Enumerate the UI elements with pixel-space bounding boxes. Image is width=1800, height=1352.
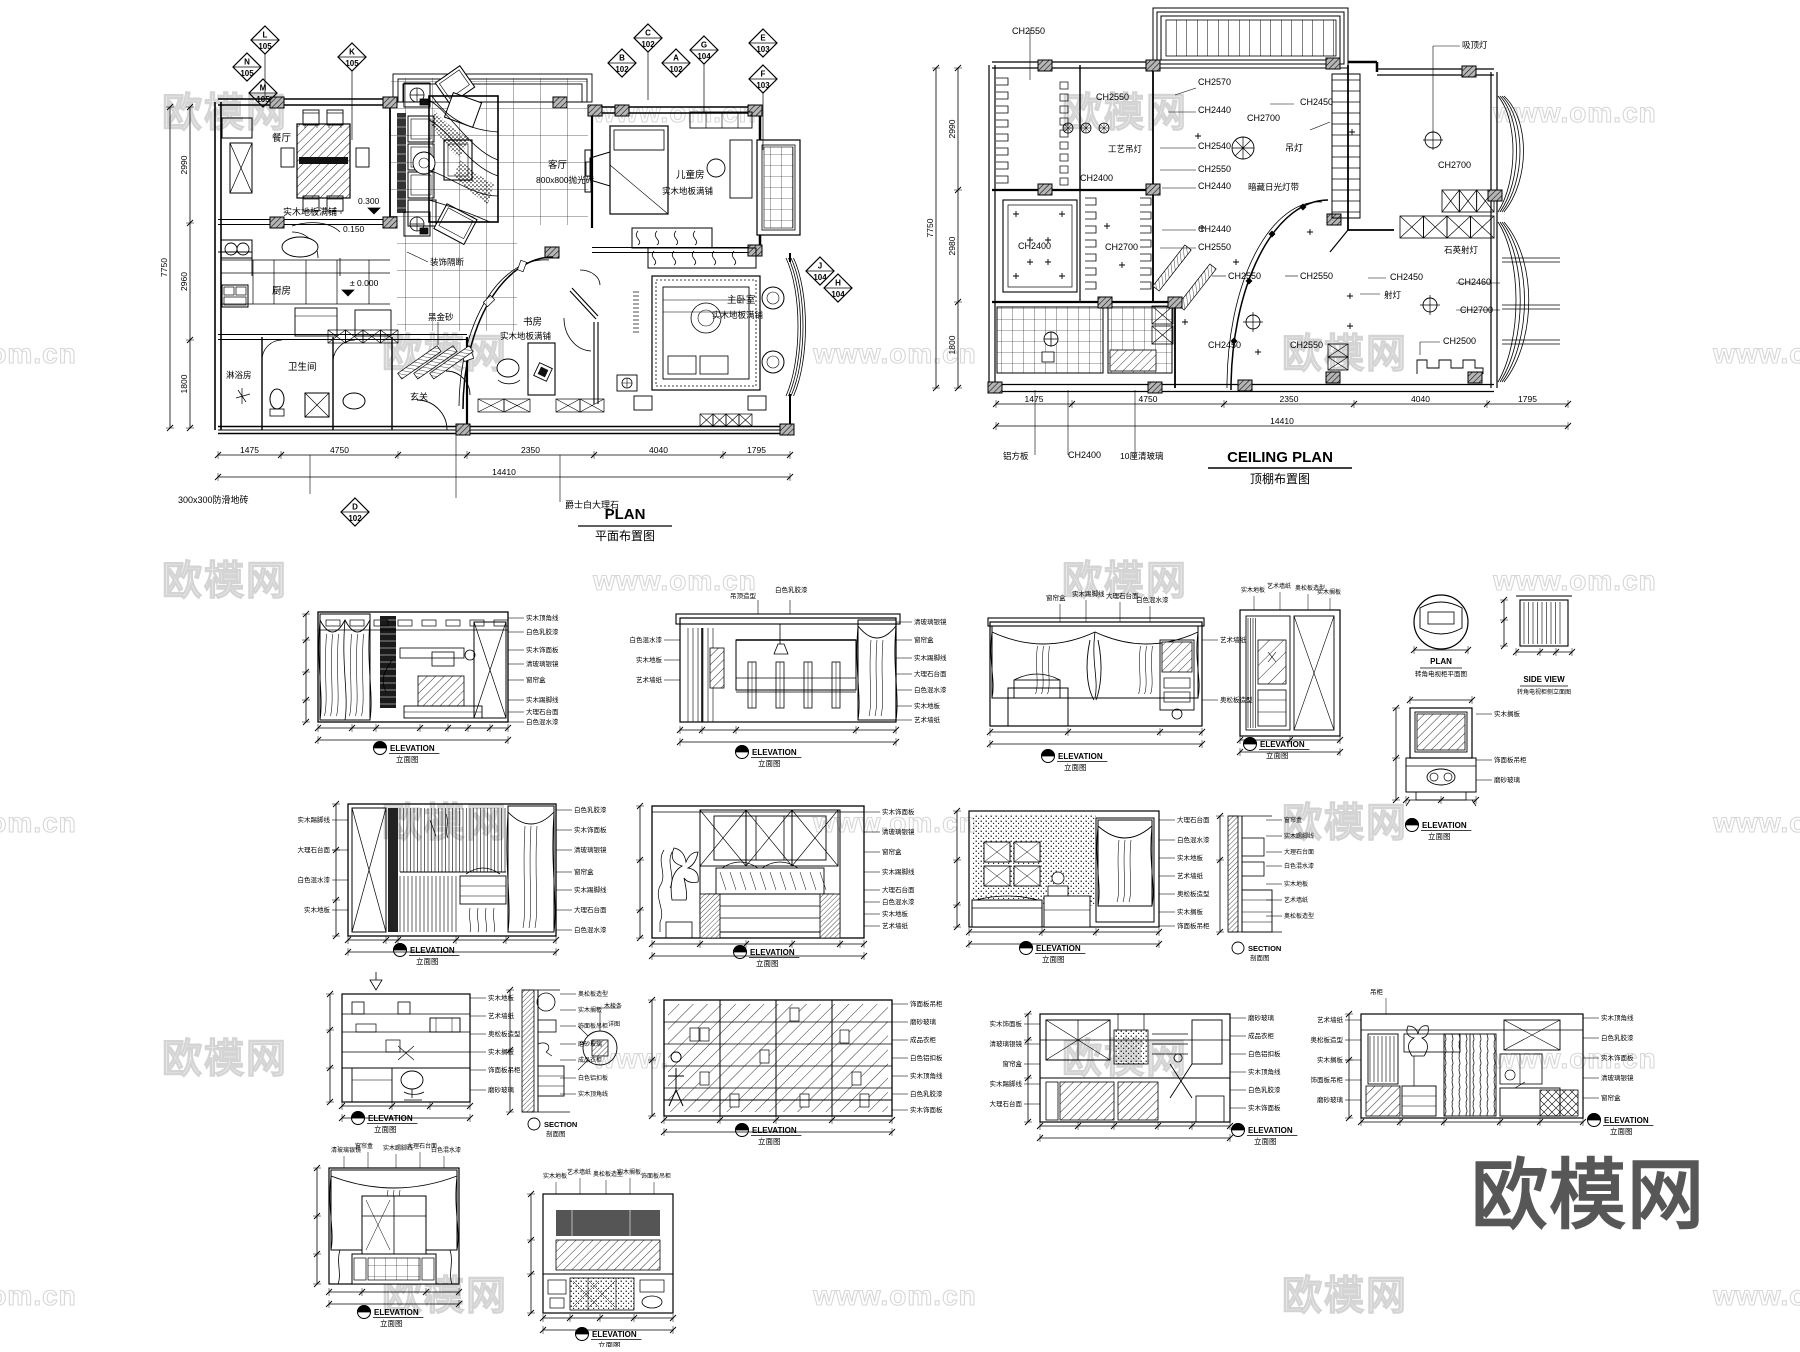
svg-text:ELEVATION: ELEVATION bbox=[1058, 752, 1103, 761]
svg-text:1795: 1795 bbox=[1518, 394, 1537, 404]
svg-text:饰面板吊柜: 饰面板吊柜 bbox=[1494, 755, 1527, 764]
svg-text:大理石台面: 大理石台面 bbox=[882, 885, 915, 894]
svg-text:2990: 2990 bbox=[947, 119, 957, 138]
svg-text:CH2460: CH2460 bbox=[1458, 277, 1491, 287]
svg-text:清玻璃银镜: 清玻璃银镜 bbox=[574, 845, 607, 854]
svg-text:艺术墙纸: 艺术墙纸 bbox=[1317, 1015, 1344, 1024]
svg-text:大理石台面: 大理石台面 bbox=[1106, 591, 1139, 600]
svg-text:CH2700: CH2700 bbox=[1438, 160, 1471, 170]
svg-text:SECTION: SECTION bbox=[1248, 944, 1281, 953]
svg-text:白色混水漆: 白色混水漆 bbox=[1136, 595, 1169, 604]
svg-text:实木顶角线: 实木顶角线 bbox=[1248, 1067, 1281, 1076]
svg-text:14410: 14410 bbox=[1270, 416, 1294, 426]
svg-text:艺术墙纸: 艺术墙纸 bbox=[1177, 871, 1204, 880]
svg-text:D: D bbox=[352, 503, 358, 512]
svg-text:CH2440: CH2440 bbox=[1198, 224, 1231, 234]
svg-text:ELEVATION: ELEVATION bbox=[368, 1114, 413, 1123]
svg-text:白色混水漆: 白色混水漆 bbox=[1177, 835, 1210, 844]
svg-text:艺术墙纸: 艺术墙纸 bbox=[1220, 635, 1247, 644]
svg-text:4040: 4040 bbox=[1411, 394, 1430, 404]
svg-text:ELEVATION: ELEVATION bbox=[374, 1308, 419, 1317]
svg-text:K: K bbox=[349, 48, 355, 57]
svg-text:CH2550: CH2550 bbox=[1300, 271, 1333, 281]
svg-text:www.om.cn: www.om.cn bbox=[0, 338, 77, 369]
svg-text:饰面板吊柜: 饰面板吊柜 bbox=[1311, 1075, 1344, 1084]
svg-text:窗帘盒: 窗帘盒 bbox=[526, 675, 546, 684]
svg-text:餐厅: 餐厅 bbox=[272, 132, 292, 144]
svg-text:立面图: 立面图 bbox=[758, 1136, 781, 1146]
svg-text:磨砂玻璃: 磨砂玻璃 bbox=[578, 1040, 602, 1048]
svg-text:CH2550: CH2550 bbox=[1198, 242, 1231, 252]
svg-text:实木饰面板: 实木饰面板 bbox=[910, 1105, 943, 1114]
svg-text:1475: 1475 bbox=[1025, 394, 1044, 404]
svg-text:窗帘盒: 窗帘盒 bbox=[1046, 593, 1066, 602]
svg-text:4040: 4040 bbox=[649, 445, 668, 455]
svg-text:4750: 4750 bbox=[1139, 394, 1158, 404]
svg-text:磨砂玻璃: 磨砂玻璃 bbox=[910, 1017, 937, 1026]
svg-text:奥松板造型: 奥松板造型 bbox=[488, 1029, 521, 1038]
svg-text:ELEVATION: ELEVATION bbox=[1422, 821, 1467, 830]
svg-text:白色混水漆: 白色混水漆 bbox=[298, 875, 331, 884]
svg-text:www.om.cn: www.om.cn bbox=[1712, 1280, 1800, 1311]
svg-text:1800: 1800 bbox=[179, 374, 189, 393]
svg-text:书房: 书房 bbox=[523, 316, 542, 328]
svg-text:CH2450: CH2450 bbox=[1300, 97, 1333, 107]
svg-text:白色乳胶漆: 白色乳胶漆 bbox=[574, 805, 607, 814]
svg-text:转角电视柜平面图: 转角电视柜平面图 bbox=[1415, 669, 1467, 678]
svg-text:CH2500: CH2500 bbox=[1443, 336, 1476, 346]
svg-text:www.om.cn: www.om.cn bbox=[1712, 807, 1800, 838]
svg-text:实木顶角线: 实木顶角线 bbox=[578, 1090, 608, 1098]
svg-text:白色混水漆: 白色混水漆 bbox=[882, 897, 915, 906]
svg-text:白色乳胶漆: 白色乳胶漆 bbox=[775, 585, 808, 594]
svg-text:吊灯: 吊灯 bbox=[1285, 143, 1303, 153]
svg-text:剖面图: 剖面图 bbox=[546, 1129, 566, 1138]
svg-text:CEILING PLAN: CEILING PLAN bbox=[1227, 449, 1333, 466]
svg-text:磨砂玻璃: 磨砂玻璃 bbox=[1494, 775, 1521, 784]
svg-text:石英射灯: 石英射灯 bbox=[1444, 245, 1479, 255]
svg-text:CH2550: CH2550 bbox=[1198, 164, 1231, 174]
svg-text:实木饰面板: 实木饰面板 bbox=[1248, 1103, 1281, 1112]
svg-text:艺术墙纸: 艺术墙纸 bbox=[914, 715, 941, 724]
svg-text:CH2400: CH2400 bbox=[1080, 173, 1113, 183]
svg-text:实木地板满铺: 实木地板满铺 bbox=[662, 186, 714, 196]
svg-text:大理石台面: 大理石台面 bbox=[1177, 815, 1210, 824]
svg-text:白色铝扣板: 白色铝扣板 bbox=[578, 1074, 608, 1082]
svg-text:立面图: 立面图 bbox=[1428, 831, 1451, 841]
svg-text:实木顶角线: 实木顶角线 bbox=[526, 613, 559, 622]
svg-text:SIDE VIEW: SIDE VIEW bbox=[1523, 675, 1565, 684]
svg-text:立面图: 立面图 bbox=[598, 1340, 621, 1347]
svg-text:白色铝扣板: 白色铝扣板 bbox=[1248, 1049, 1281, 1058]
svg-text:102: 102 bbox=[669, 65, 683, 74]
svg-text:CH2400: CH2400 bbox=[1068, 450, 1101, 460]
svg-text:实木地板: 实木地板 bbox=[636, 655, 663, 664]
svg-text:艺术墙纸: 艺术墙纸 bbox=[882, 921, 909, 930]
svg-text:详图: 详图 bbox=[608, 1020, 620, 1028]
svg-text:ELEVATION: ELEVATION bbox=[752, 748, 797, 757]
svg-text:淋浴房: 淋浴房 bbox=[226, 370, 252, 380]
svg-text:吸顶灯: 吸顶灯 bbox=[1462, 40, 1488, 50]
svg-text:103: 103 bbox=[756, 45, 770, 54]
svg-text:成品衣柜: 成品衣柜 bbox=[910, 1035, 937, 1044]
svg-text:白色混水漆: 白色混水漆 bbox=[431, 1146, 461, 1154]
svg-text:CH2550: CH2550 bbox=[1096, 92, 1129, 102]
svg-text:客厅: 客厅 bbox=[548, 159, 568, 171]
svg-text:清玻璃银镜: 清玻璃银镜 bbox=[1601, 1073, 1634, 1082]
svg-text:木棱条: 木棱条 bbox=[604, 1002, 622, 1010]
svg-text:成品衣柜: 成品衣柜 bbox=[578, 1056, 602, 1064]
svg-text:实木踢脚线: 实木踢脚线 bbox=[882, 867, 915, 876]
svg-text:欧模网: 欧模网 bbox=[162, 1037, 288, 1081]
svg-text:吊顶造型: 吊顶造型 bbox=[730, 591, 757, 600]
svg-text:2980: 2980 bbox=[947, 236, 957, 255]
svg-text:工艺吊灯: 工艺吊灯 bbox=[1108, 144, 1143, 154]
svg-text:CH2700: CH2700 bbox=[1105, 242, 1138, 252]
svg-text:实木踢脚线: 实木踢脚线 bbox=[1072, 589, 1105, 598]
svg-text:实木踢脚线: 实木踢脚线 bbox=[1284, 832, 1314, 840]
svg-text:大理石台面: 大理石台面 bbox=[298, 845, 331, 854]
svg-text:0.150: 0.150 bbox=[343, 224, 365, 234]
svg-text:大理石台面: 大理石台面 bbox=[990, 1099, 1023, 1108]
svg-text:实木搁板: 实木搁板 bbox=[488, 1047, 515, 1056]
svg-text:黑金砂: 黑金砂 bbox=[428, 312, 454, 322]
svg-text:2350: 2350 bbox=[1280, 394, 1299, 404]
svg-text:转角电视柜侧立面图: 转角电视柜侧立面图 bbox=[1517, 688, 1571, 696]
svg-text:艺术墙纸: 艺术墙纸 bbox=[1284, 896, 1308, 904]
svg-text:磨砂玻璃: 磨砂玻璃 bbox=[1248, 1013, 1275, 1022]
svg-text:立面图: 立面图 bbox=[1610, 1126, 1633, 1136]
svg-text:ELEVATION: ELEVATION bbox=[1036, 944, 1081, 953]
svg-text:www.om.cn: www.om.cn bbox=[592, 565, 757, 596]
svg-text:PLAN: PLAN bbox=[1430, 657, 1452, 666]
svg-text:窗帘盒: 窗帘盒 bbox=[882, 847, 902, 856]
svg-text:厨房: 厨房 bbox=[272, 285, 291, 297]
svg-text:清玻璃银镜: 清玻璃银镜 bbox=[526, 659, 559, 668]
svg-text:CH2540: CH2540 bbox=[1198, 141, 1231, 151]
svg-text:实木地板: 实木地板 bbox=[914, 701, 941, 710]
svg-text:暗藏日光灯带: 暗藏日光灯带 bbox=[1248, 182, 1300, 192]
svg-text:成品衣柜: 成品衣柜 bbox=[1248, 1031, 1275, 1040]
svg-text:白色乳胶漆: 白色乳胶漆 bbox=[1601, 1033, 1634, 1042]
svg-text:CH2700: CH2700 bbox=[1247, 113, 1280, 123]
svg-text:ELEVATION: ELEVATION bbox=[1260, 740, 1305, 749]
svg-text:立面图: 立面图 bbox=[396, 754, 419, 764]
svg-text:吊柜: 吊柜 bbox=[1370, 987, 1384, 996]
svg-text:实木搁板: 实木搁板 bbox=[1494, 709, 1521, 718]
svg-text:105: 105 bbox=[345, 59, 359, 68]
svg-text:剖面图: 剖面图 bbox=[1250, 953, 1270, 962]
svg-text:白色乳胶漆: 白色乳胶漆 bbox=[1248, 1085, 1281, 1094]
svg-text:实木踢脚线: 实木踢脚线 bbox=[914, 653, 947, 662]
svg-text:窗帘盒: 窗帘盒 bbox=[1601, 1093, 1621, 1102]
svg-text:艺术墙纸: 艺术墙纸 bbox=[1267, 582, 1291, 590]
svg-text:M: M bbox=[260, 84, 267, 93]
svg-text:ELEVATION: ELEVATION bbox=[1604, 1116, 1649, 1125]
svg-text:磨砂玻璃: 磨砂玻璃 bbox=[1317, 1095, 1344, 1104]
svg-text:CH2570: CH2570 bbox=[1198, 77, 1231, 87]
svg-text:实木地板满铺: 实木地板满铺 bbox=[500, 331, 552, 341]
svg-text:104: 104 bbox=[831, 290, 845, 299]
svg-text:射灯: 射灯 bbox=[1384, 290, 1402, 300]
svg-text:平面布置图: 平面布置图 bbox=[595, 529, 655, 543]
svg-text:艺术墙纸: 艺术墙纸 bbox=[636, 675, 663, 684]
svg-text:实木地板: 实木地板 bbox=[1241, 586, 1265, 594]
svg-text:实木地板: 实木地板 bbox=[488, 993, 515, 1002]
svg-text:铝方板: 铝方板 bbox=[1003, 451, 1029, 461]
svg-text:4750: 4750 bbox=[330, 445, 349, 455]
svg-text:PLAN: PLAN bbox=[605, 506, 646, 523]
svg-text:欧模网: 欧模网 bbox=[382, 801, 508, 845]
svg-text:B: B bbox=[619, 54, 625, 63]
svg-text:立面图: 立面图 bbox=[1042, 954, 1065, 964]
svg-text:窗帘盒: 窗帘盒 bbox=[355, 1142, 373, 1150]
svg-text:实木踢脚线: 实木踢脚线 bbox=[298, 815, 331, 824]
svg-text:实木饰面板: 实木饰面板 bbox=[526, 645, 559, 654]
svg-text:实木顶角线: 实木顶角线 bbox=[910, 1071, 943, 1080]
svg-text:ELEVATION: ELEVATION bbox=[390, 744, 435, 753]
svg-text:奥松板造型: 奥松板造型 bbox=[1284, 912, 1314, 920]
svg-text:L: L bbox=[263, 31, 268, 40]
svg-text:实木地板: 实木地板 bbox=[543, 1172, 567, 1180]
svg-text:实木饰面板: 实木饰面板 bbox=[882, 807, 915, 816]
svg-text:A: A bbox=[673, 54, 679, 63]
svg-text:实木地板满铺: 实木地板满铺 bbox=[283, 206, 337, 217]
svg-text:1795: 1795 bbox=[747, 445, 766, 455]
svg-text:实木地板满铺: 实木地板满铺 bbox=[712, 310, 764, 320]
svg-text:大理石台面: 大理石台面 bbox=[526, 707, 559, 716]
svg-text:立面图: 立面图 bbox=[1266, 750, 1289, 760]
svg-text:ELEVATION: ELEVATION bbox=[592, 1330, 637, 1339]
svg-text:大理石台面: 大理石台面 bbox=[914, 669, 947, 678]
svg-text:CH2550: CH2550 bbox=[1012, 26, 1045, 36]
svg-text:ELEVATION: ELEVATION bbox=[410, 946, 455, 955]
svg-text:饰面板吊柜: 饰面板吊柜 bbox=[488, 1065, 521, 1074]
svg-text:饰面板吊柜: 饰面板吊柜 bbox=[641, 1172, 671, 1180]
svg-text:艺术墙纸: 艺术墙纸 bbox=[488, 1011, 515, 1020]
svg-text:ELEVATION: ELEVATION bbox=[1248, 1126, 1293, 1135]
svg-text:白色乳胶漆: 白色乳胶漆 bbox=[910, 1089, 943, 1098]
svg-text:立面图: 立面图 bbox=[374, 1124, 397, 1134]
svg-text:实木地板: 实木地板 bbox=[1177, 853, 1204, 862]
svg-text:立面图: 立面图 bbox=[758, 758, 781, 768]
svg-text:饰面板吊柜: 饰面板吊柜 bbox=[910, 999, 943, 1008]
svg-text:白色混水漆: 白色混水漆 bbox=[574, 925, 607, 934]
svg-text:实木搁板: 实木搁板 bbox=[1317, 588, 1341, 596]
svg-text:SECTION: SECTION bbox=[544, 1120, 577, 1129]
svg-text:CH2440: CH2440 bbox=[1198, 181, 1231, 191]
svg-text:102: 102 bbox=[641, 40, 655, 49]
svg-text:实木搁板: 实木搁板 bbox=[1317, 1055, 1344, 1064]
svg-text:104: 104 bbox=[813, 273, 827, 282]
svg-text:实木地板: 实木地板 bbox=[1284, 880, 1308, 888]
svg-text:窗帘盒: 窗帘盒 bbox=[1284, 816, 1302, 824]
svg-text:奥松板造型: 奥松板造型 bbox=[1311, 1035, 1344, 1044]
svg-text:2990: 2990 bbox=[179, 155, 189, 174]
svg-text:窗帘盒: 窗帘盒 bbox=[574, 867, 594, 876]
svg-text:H: H bbox=[835, 279, 841, 288]
svg-text:实木踢脚线: 实木踢脚线 bbox=[574, 885, 607, 894]
svg-text:磨砂玻璃: 磨砂玻璃 bbox=[488, 1085, 515, 1094]
svg-text:2350: 2350 bbox=[521, 445, 540, 455]
svg-text:清玻璃银镜: 清玻璃银镜 bbox=[882, 827, 915, 836]
svg-text:实木踢脚线: 实木踢脚线 bbox=[526, 695, 559, 704]
svg-text:白色混水漆: 白色混水漆 bbox=[914, 685, 947, 694]
svg-text:800x800抛光砖: 800x800抛光砖 bbox=[536, 175, 595, 185]
svg-text:www.om.cn: www.om.cn bbox=[812, 1280, 977, 1311]
svg-text:www.om.cn: www.om.cn bbox=[0, 807, 77, 838]
svg-text:白色混水漆: 白色混水漆 bbox=[526, 717, 559, 726]
svg-text:实木搁板: 实木搁板 bbox=[578, 1006, 602, 1014]
svg-text:立面图: 立面图 bbox=[380, 1318, 403, 1328]
svg-text:立面图: 立面图 bbox=[756, 958, 779, 968]
svg-text:7750: 7750 bbox=[925, 218, 935, 237]
svg-text:1800: 1800 bbox=[947, 335, 957, 354]
svg-text:立面图: 立面图 bbox=[416, 956, 439, 966]
svg-text:300x300防滑地砖: 300x300防滑地砖 bbox=[178, 494, 249, 505]
svg-text:主卧室: 主卧室 bbox=[727, 294, 756, 306]
svg-text:J: J bbox=[818, 262, 822, 271]
svg-text:奥松板造型: 奥松板造型 bbox=[578, 990, 608, 998]
svg-text:CH2550: CH2550 bbox=[1228, 271, 1261, 281]
svg-text:窗帘盒: 窗帘盒 bbox=[914, 635, 934, 644]
svg-text:卫生间: 卫生间 bbox=[288, 361, 317, 373]
svg-text:10厘清玻璃: 10厘清玻璃 bbox=[1120, 451, 1164, 461]
svg-text:实木饰面板: 实木饰面板 bbox=[990, 1019, 1023, 1028]
svg-text:立面图: 立面图 bbox=[1064, 762, 1087, 772]
svg-text:N: N bbox=[244, 58, 250, 67]
svg-text:104: 104 bbox=[697, 52, 711, 61]
svg-text:饰面板吊柜: 饰面板吊柜 bbox=[1177, 921, 1210, 930]
svg-text:2960: 2960 bbox=[179, 272, 189, 291]
svg-text:白色混水漆: 白色混水漆 bbox=[630, 635, 663, 644]
svg-text:www.om.cn: www.om.cn bbox=[1712, 338, 1800, 369]
svg-text:奥松板造型: 奥松板造型 bbox=[1177, 889, 1210, 898]
svg-text:实木搁板: 实木搁板 bbox=[617, 1168, 641, 1176]
svg-text:窗帘盒: 窗帘盒 bbox=[1003, 1059, 1023, 1068]
svg-text:实木搁板: 实木搁板 bbox=[1177, 907, 1204, 916]
svg-text:0.300: 0.300 bbox=[358, 196, 380, 206]
svg-text:装饰隔断: 装饰隔断 bbox=[430, 257, 465, 267]
svg-text:实木踢脚线: 实木踢脚线 bbox=[990, 1079, 1023, 1088]
svg-text:E: E bbox=[760, 34, 766, 43]
svg-text:欧模网: 欧模网 bbox=[1282, 1274, 1408, 1318]
svg-text:欧模网: 欧模网 bbox=[1471, 1153, 1705, 1239]
svg-text:ELEVATION: ELEVATION bbox=[752, 1126, 797, 1135]
svg-text:立面图: 立面图 bbox=[1254, 1136, 1277, 1146]
svg-text:大理石台面: 大理石台面 bbox=[574, 905, 607, 914]
svg-text:艺术墙纸: 艺术墙纸 bbox=[567, 1168, 591, 1176]
svg-text:14410: 14410 bbox=[492, 467, 516, 477]
svg-text:C: C bbox=[645, 29, 651, 38]
svg-text:www.om.cn: www.om.cn bbox=[1492, 565, 1657, 596]
svg-text:1475: 1475 bbox=[240, 445, 259, 455]
svg-text:实木顶角线: 实木顶角线 bbox=[1601, 1013, 1634, 1022]
svg-text:清玻璃银镜: 清玻璃银镜 bbox=[914, 617, 947, 626]
svg-text:欧模网: 欧模网 bbox=[162, 559, 288, 603]
svg-text:实木地板: 实木地板 bbox=[882, 909, 909, 918]
svg-text:白色乳胶漆: 白色乳胶漆 bbox=[526, 627, 559, 636]
svg-text:105: 105 bbox=[258, 42, 272, 51]
svg-text:102: 102 bbox=[348, 514, 362, 523]
svg-text:G: G bbox=[701, 41, 707, 50]
svg-text:103: 103 bbox=[756, 81, 770, 90]
svg-text:7750: 7750 bbox=[159, 258, 169, 277]
svg-text:CH2400: CH2400 bbox=[1018, 241, 1051, 251]
svg-text:实木地板: 实木地板 bbox=[304, 905, 331, 914]
svg-text:实木饰面板: 实木饰面板 bbox=[1601, 1053, 1634, 1062]
svg-text:ELEVATION: ELEVATION bbox=[750, 948, 795, 957]
svg-text:饰面板吊柜: 饰面板吊柜 bbox=[578, 1022, 608, 1030]
svg-text:白色铝扣板: 白色铝扣板 bbox=[910, 1053, 943, 1062]
svg-text:欧模网: 欧模网 bbox=[1282, 332, 1408, 376]
svg-text:105: 105 bbox=[256, 95, 270, 104]
svg-text:清玻璃银镜: 清玻璃银镜 bbox=[990, 1039, 1023, 1048]
svg-text:CH2450: CH2450 bbox=[1208, 340, 1241, 350]
svg-text:105: 105 bbox=[240, 69, 254, 78]
svg-text:儿童房: 儿童房 bbox=[676, 169, 705, 181]
svg-text:CH2550: CH2550 bbox=[1290, 340, 1323, 350]
svg-text:www.om.cn: www.om.cn bbox=[0, 1280, 77, 1311]
svg-text:顶棚布置图: 顶棚布置图 bbox=[1250, 471, 1310, 486]
svg-text:F: F bbox=[761, 70, 766, 79]
svg-text:102: 102 bbox=[615, 65, 629, 74]
svg-text:大理石台面: 大理石台面 bbox=[1284, 848, 1314, 856]
svg-text:CH2450: CH2450 bbox=[1390, 272, 1423, 282]
svg-text:± 0.000: ± 0.000 bbox=[350, 278, 379, 288]
svg-text:CH2440: CH2440 bbox=[1198, 105, 1231, 115]
svg-text:白色混水漆: 白色混水漆 bbox=[1284, 862, 1314, 870]
svg-text:实木饰面板: 实木饰面板 bbox=[574, 825, 607, 834]
